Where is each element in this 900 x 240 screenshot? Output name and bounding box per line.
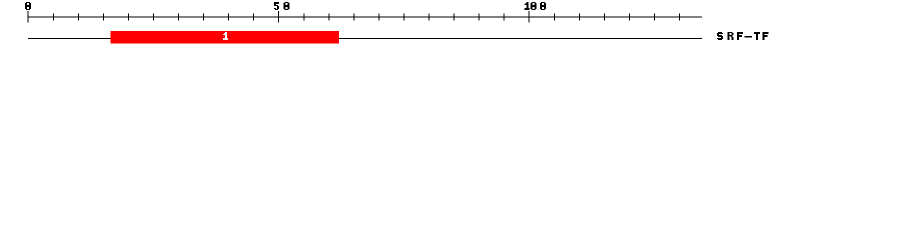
ruler axis line bbox=[28, 17, 702, 18]
ruler label 100 bbox=[525, 2, 546, 10]
minor tick at residue 30 bbox=[178, 14, 180, 21]
major tick at residue 100 bbox=[528, 11, 530, 23]
domain box SRF-TF (red) bbox=[111, 31, 340, 43]
minor tick at residue 55 bbox=[303, 14, 305, 21]
minor tick at residue 75 bbox=[403, 14, 405, 21]
minor tick at residue 60 bbox=[328, 14, 330, 21]
sequence line bbox=[28, 38, 702, 39]
minor tick at residue 125 bbox=[653, 14, 655, 21]
domain number 1 bbox=[223, 32, 228, 40]
minor tick at residue 110 bbox=[578, 14, 580, 21]
minor tick at residue 95 bbox=[503, 14, 505, 21]
minor tick at residue 120 bbox=[628, 14, 630, 21]
minor tick at residue 130 bbox=[679, 14, 681, 21]
minor tick at residue 70 bbox=[378, 14, 380, 21]
minor tick at residue 80 bbox=[428, 14, 430, 21]
major tick at residue 0 bbox=[27, 11, 29, 23]
minor tick at residue 115 bbox=[603, 14, 605, 21]
minor tick at residue 65 bbox=[353, 14, 355, 21]
minor tick at residue 45 bbox=[253, 14, 255, 21]
domain name TF (part 2) bbox=[754, 32, 769, 40]
minor tick at residue 85 bbox=[453, 14, 455, 21]
minor tick at residue 40 bbox=[228, 14, 230, 21]
domain name dash bbox=[745, 36, 752, 38]
domain name SRF (part 1) bbox=[717, 32, 743, 40]
minor tick at residue 35 bbox=[203, 14, 205, 21]
minor tick at residue 25 bbox=[152, 14, 154, 21]
minor tick at residue 20 bbox=[127, 14, 129, 21]
minor tick at residue 105 bbox=[553, 14, 555, 21]
major tick at residue 50 bbox=[278, 11, 280, 23]
minor tick at residue 15 bbox=[102, 14, 104, 21]
minor tick at residue 90 bbox=[478, 14, 480, 21]
minor tick at residue 5 bbox=[52, 14, 54, 21]
minor tick at residue 10 bbox=[77, 14, 79, 21]
ruler label 0 bbox=[25, 2, 31, 10]
ruler label 50 bbox=[274, 2, 289, 10]
